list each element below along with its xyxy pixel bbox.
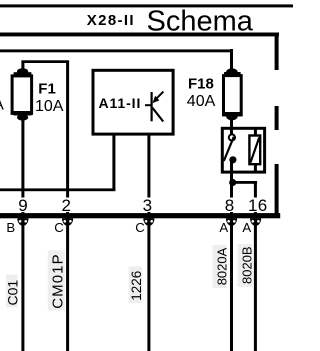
svg-text:C: C — [54, 220, 64, 235]
svg-text:16: 16 — [248, 196, 268, 215]
svg-text:A: A — [242, 220, 251, 235]
svg-text:C01: C01 — [4, 280, 20, 306]
svg-text:B: B — [6, 220, 15, 235]
svg-text:8020A: 8020A — [215, 247, 230, 285]
svg-text:A11-II: A11-II — [99, 95, 142, 111]
svg-text:2: 2 — [61, 196, 70, 215]
svg-text:A: A — [0, 97, 4, 114]
svg-text:F18: F18 — [188, 76, 214, 93]
svg-text:8: 8 — [225, 196, 234, 215]
svg-text:10A: 10A — [35, 98, 64, 115]
svg-text:Schema: Schema — [147, 6, 254, 38]
svg-text:1226: 1226 — [129, 271, 144, 301]
svg-text:8020B: 8020B — [240, 246, 255, 284]
svg-text:9: 9 — [18, 196, 27, 215]
svg-text:CM01P: CM01P — [49, 253, 66, 309]
svg-text:X28-II: X28-II — [87, 12, 135, 29]
svg-text:3: 3 — [143, 196, 152, 215]
svg-text:40A: 40A — [187, 93, 216, 110]
svg-text:C: C — [135, 220, 145, 235]
svg-text:F1: F1 — [38, 80, 56, 97]
svg-text:A: A — [219, 220, 228, 235]
